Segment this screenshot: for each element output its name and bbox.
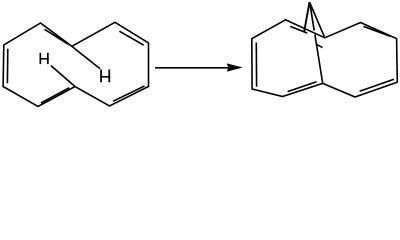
bridge bond apex-E' lower segment [315, 35, 323, 84]
arrow head [227, 63, 243, 71]
bond E-H1 [51, 66, 75, 87]
double bond inner Jr=RR2 [360, 79, 394, 91]
double bond inner R1=G [119, 31, 143, 45]
wire ring A-B-C-D-E-J-R2-R1-G-F-A [3, 22, 148, 106]
double bond inner A'=F' fragment 2 [316, 44, 322, 47]
double bond inner A'=F' fragment 1 [290, 26, 307, 33]
reaction arrow [155, 63, 243, 71]
bridge left edge line [304, 2, 309, 32]
label H2 [100, 70, 110, 83]
bridge bond apex-E' upper segment [310, 6, 314, 31]
double bond inner D'=E' [288, 82, 317, 92]
right molecule: 1,6-methano[10]annulene ring perimeter [252, 2, 397, 97]
label H1 [40, 53, 49, 64]
double bond inner B'=C' [255, 43, 257, 87]
wire ring A'-B'-C'-D'-E'-Jr-RR2-RR1-Gr-F'-A' [252, 20, 397, 97]
double bond inner B=C [6, 49, 8, 84]
bond F-H2 [72, 46, 100, 69]
double bond inner J=R2 [113, 86, 145, 101]
bridge bond apex-F' [310, 2, 325, 38]
wire arrow shaft [155, 67, 230, 69]
left molecule: trans-[10]annulene ring perimeter [3, 22, 148, 106]
double bond inner D=E [41, 88, 69, 103]
double bond inner F=A [45, 29, 69, 44]
double bond inner Gr=RR1 [363, 26, 390, 36]
